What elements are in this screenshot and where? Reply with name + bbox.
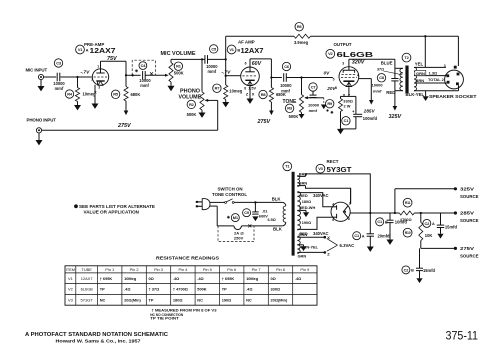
svg-text:285V: 285V xyxy=(363,109,376,114)
tube V2 6L6GB output beam tetrode xyxy=(333,62,359,91)
svg-text:12AX7: 12AX7 xyxy=(81,276,93,281)
svg-text:TOTAL 2: TOTAL 2 xyxy=(428,77,445,82)
wire R1 top to C5 xyxy=(171,58,205,60)
svg-text:† 695K: † 695K xyxy=(222,276,235,281)
potentiometer R2 500K phono volume xyxy=(187,92,205,117)
svg-text:.4Ω: .4Ω xyxy=(197,276,203,281)
svg-text:R7: R7 xyxy=(215,86,220,91)
resistor R7 10meg xyxy=(213,84,243,102)
svg-text:500K: 500K xyxy=(174,71,184,76)
svg-text:A: A xyxy=(86,47,89,52)
node V1B plate xyxy=(270,76,272,78)
svg-text:NC: NC xyxy=(246,298,252,303)
6L6 plate wire 320V xyxy=(349,59,395,66)
wire plug to switch xyxy=(210,201,225,203)
svg-text:mmf: mmf xyxy=(140,83,149,88)
svg-text:10K: 10K xyxy=(425,233,433,238)
svg-text:BRN: BRN xyxy=(299,171,308,176)
275V source arrow below R8 xyxy=(257,111,274,126)
AC line plug xyxy=(196,199,210,210)
wire node to C4 xyxy=(126,69,141,76)
svg-text:680K: 680K xyxy=(131,92,141,97)
wire C5 to grid node xyxy=(208,58,227,60)
svg-text:Pin 7: Pin 7 xyxy=(252,267,261,272)
325V source line xyxy=(395,187,479,213)
grid voltage label -.7V xyxy=(81,70,91,76)
resistor R5 680K plate load xyxy=(111,75,140,110)
T1 6.3V heater winding GRN xyxy=(297,232,330,259)
speaker impedance labels xyxy=(428,70,445,81)
svg-text:NC: NC xyxy=(197,298,203,303)
svg-text:20mfd: 20mfd xyxy=(378,233,391,238)
svg-text:2 W: 2 W xyxy=(344,103,351,108)
T2 primary coil xyxy=(400,68,403,90)
svg-text:GRN: GRN xyxy=(299,232,308,237)
svg-text:† 37Ω: † 37Ω xyxy=(149,287,160,292)
cathode ground V1A xyxy=(92,85,99,109)
V1B plate voltage 60V xyxy=(252,61,262,67)
svg-text:.4Ω: .4Ω xyxy=(295,276,301,281)
svg-text:3: 3 xyxy=(342,62,344,66)
svg-text:275V: 275V xyxy=(257,119,271,125)
resistor R4 10meg grid leak xyxy=(65,77,96,105)
svg-text:BLK-YEL: BLK-YEL xyxy=(406,92,425,97)
svg-text:R10: R10 xyxy=(405,231,411,235)
svg-text:PHONO INPUT: PHONO INPUT xyxy=(27,117,57,122)
svg-text:250V: 250V xyxy=(234,236,244,241)
tube V1A 12AX7 pre-amp triode xyxy=(91,64,109,89)
svg-text:B: B xyxy=(385,221,388,225)
svg-text:TUBE: TUBE xyxy=(81,267,92,272)
svg-text:mmf: mmf xyxy=(207,69,216,74)
svg-text:500K: 500K xyxy=(289,114,299,119)
filter cap C2A 15mfd xyxy=(423,213,458,239)
wire C4 to R1 wiper xyxy=(145,74,168,77)
ground below R3 xyxy=(299,114,305,119)
pre-amp title and V1 designator xyxy=(76,42,116,55)
output title and V2 designator xyxy=(326,42,373,59)
svg-text:TP: TP xyxy=(100,287,105,292)
node plate V1A xyxy=(125,74,127,76)
T1 HV center tap RED-WH to ground xyxy=(297,205,315,225)
resistor R8 680K xyxy=(259,78,286,111)
svg-text:TP: TP xyxy=(222,287,227,292)
svg-text:.4Ω: .4Ω xyxy=(173,276,179,281)
feedback wire to speaker xyxy=(311,35,459,67)
filter cap C2B 15mfd xyxy=(402,248,436,283)
capacitor C9 .01 600V line bypass xyxy=(243,202,269,221)
tone control title xyxy=(283,99,297,105)
svg-text:375-11: 375-11 xyxy=(446,331,479,343)
svg-text:285V: 285V xyxy=(460,211,475,216)
svg-text:10000: 10000 xyxy=(280,83,292,88)
V3 pin2 wire xyxy=(350,188,352,204)
svg-text:† 4700Ω: † 4700Ω xyxy=(173,287,188,292)
mic volume title xyxy=(161,51,196,57)
svg-text:C7: C7 xyxy=(311,84,316,89)
svg-text:MIC VOLUME: MIC VOLUME xyxy=(161,51,196,57)
wire fuse to T1 primary bottom BLK xyxy=(241,222,285,231)
V1B plate wire to C6 node xyxy=(250,59,271,78)
speaker socket xyxy=(429,64,477,99)
capacitor C6 10000mmf coupling xyxy=(271,62,292,93)
R2 wiper wire to phono input xyxy=(42,99,218,130)
svg-text:mmf: mmf xyxy=(373,88,382,93)
svg-text:-.7V: -.7V xyxy=(222,69,232,75)
T2 secondary green tap boxed label xyxy=(414,70,446,75)
ground below R2 xyxy=(199,113,206,118)
svg-text:A: A xyxy=(432,222,435,226)
svg-text:SOURCE: SOURCE xyxy=(460,218,479,223)
svg-text:340VAC: 340VAC xyxy=(313,231,329,236)
svg-text:mmf: mmf xyxy=(309,108,318,113)
svg-text:4: 4 xyxy=(357,73,359,77)
svg-text:BLK: BLK xyxy=(273,227,283,232)
capacitor C5 10000mmf xyxy=(205,45,218,74)
wire mic jack to C3 xyxy=(44,76,57,78)
svg-text:680K: 680K xyxy=(276,92,286,97)
svg-text:X: X xyxy=(94,90,97,95)
svg-text:4700Ω: 4700Ω xyxy=(400,217,412,222)
wire C6 to 6L6 grid xyxy=(286,76,333,78)
switch on tone control xyxy=(212,187,247,204)
svg-text:Pin 5: Pin 5 xyxy=(203,267,212,272)
phono input jack J2 xyxy=(27,117,57,133)
svg-text:6: 6 xyxy=(332,218,334,222)
resistor R9 330ohm 2W xyxy=(326,96,353,128)
T2 primary blue wire from plate xyxy=(381,59,403,68)
T2 primary winding resistance 37ohm xyxy=(377,68,402,75)
svg-text:RED: RED xyxy=(300,193,308,198)
svg-text:Pin 2: Pin 2 xyxy=(130,267,139,272)
svg-text:Pin 3: Pin 3 xyxy=(154,267,163,272)
screen wire to 285V arrow xyxy=(358,79,375,114)
svg-text:6: 6 xyxy=(245,62,247,66)
svg-text:5Y3GT: 5Y3GT xyxy=(80,298,93,303)
svg-text:15mfd: 15mfd xyxy=(445,224,458,229)
275V source arrow below R5 xyxy=(117,111,131,130)
resistance readings table xyxy=(65,256,317,306)
transformer T1 designator xyxy=(283,162,292,171)
svg-text:8: 8 xyxy=(348,217,350,221)
svg-text:0Ω: 0Ω xyxy=(271,276,276,281)
wire to phono volume top xyxy=(201,59,203,91)
potentiometer R1 500K mic volume xyxy=(169,59,184,85)
svg-text:3: 3 xyxy=(98,86,100,90)
tube V1B 12AX7 AF amp xyxy=(241,62,260,91)
svg-text:Pin 8: Pin 8 xyxy=(276,267,285,272)
svg-text:10Meg: 10Meg xyxy=(246,276,259,281)
ground at phono jack xyxy=(36,133,43,145)
svg-text:6L6GB: 6L6GB xyxy=(81,287,94,292)
svg-text:20Ω(Min): 20Ω(Min) xyxy=(271,298,288,303)
ground below R1 xyxy=(168,86,175,91)
svg-text:190Ω: 190Ω xyxy=(302,221,311,225)
wire to V1B grid xyxy=(222,69,241,75)
svg-text:SOURCE: SOURCE xyxy=(460,194,479,199)
svg-text:TONE CONTROL: TONE CONTROL xyxy=(212,192,247,197)
folder number 375-11 xyxy=(446,331,479,343)
tie point x after C4 xyxy=(150,72,153,75)
resistor R10 10K bleeder xyxy=(403,213,432,248)
potentiometer R3 500K tone xyxy=(285,78,303,120)
svg-text:8: 8 xyxy=(244,86,246,90)
svg-text:10000: 10000 xyxy=(372,82,384,87)
svg-text:V3: V3 xyxy=(68,298,73,303)
svg-text:340VAC: 340VAC xyxy=(313,193,329,198)
feedback wire from grid node xyxy=(226,35,294,37)
svg-text:GRN-YEL: GRN-YEL xyxy=(301,245,319,250)
svg-text:100mfd: 100mfd xyxy=(363,116,378,121)
alternate dashed ground for tone xyxy=(313,98,329,112)
svg-text:0Ω: 0Ω xyxy=(149,276,154,281)
svg-text:6L6GB: 6L6GB xyxy=(337,50,374,59)
filter cap C1B 10mfd xyxy=(376,213,408,245)
capacitor C3 10000mmf xyxy=(53,59,65,91)
svg-text:12AX7: 12AX7 xyxy=(241,46,264,55)
rectifier title and V3 designator xyxy=(316,159,352,174)
svg-text:1.3Ω: 1.3Ω xyxy=(429,70,438,75)
T2 red wire to 325V arrow xyxy=(386,90,403,120)
ground below R7 xyxy=(222,102,229,107)
svg-text:mmf: mmf xyxy=(55,86,64,91)
capacitor C1C 100mfd cathode bypass xyxy=(341,96,378,128)
svg-text:SPEAKER SOCKET: SPEAKER SOCKET xyxy=(429,94,477,99)
svg-text:275V: 275V xyxy=(117,123,131,129)
svg-text:0V: 0V xyxy=(324,70,331,76)
transformer T2 designator xyxy=(402,53,411,62)
svg-text:2: 2 xyxy=(91,78,93,82)
T2 secondary black-yellow wire xyxy=(406,91,459,101)
T1 HV bottom RED 340VAC xyxy=(297,217,331,236)
svg-text:GRN: GRN xyxy=(298,254,307,259)
svg-text:37Ω: 37Ω xyxy=(377,68,384,72)
svg-text:RESISTANCE READINGS: RESISTANCE READINGS xyxy=(156,256,220,262)
capacitor C7 10000mmf on tone wiper xyxy=(304,83,320,113)
svg-text:Pin 4: Pin 4 xyxy=(178,267,188,272)
svg-text:3.9meg: 3.9meg xyxy=(294,40,309,45)
svg-text:Howard W. Sams & Co., Inc. 195: Howard W. Sams & Co., Inc. 1957 xyxy=(56,339,142,344)
svg-text:RED-WH: RED-WH xyxy=(299,205,315,210)
alternate part dashed box around C4 xyxy=(132,60,155,75)
svg-text:VALUE OR APPLICATION: VALUE OR APPLICATION xyxy=(84,210,140,215)
svg-text:R11: R11 xyxy=(405,201,411,205)
T1 primary coil xyxy=(268,206,286,222)
svg-text:BRN: BRN xyxy=(416,78,425,83)
svg-text:† 695K: † 695K xyxy=(100,276,113,281)
phono volume title xyxy=(179,89,202,101)
svg-text:YEL: YEL xyxy=(415,61,424,66)
svg-text:SEE PARTS LIST FOR ALTERNATE: SEE PARTS LIST FOR ALTERNATE xyxy=(79,204,155,209)
svg-text:5: 5 xyxy=(333,78,335,82)
capacitor C8 10000mmf across primary xyxy=(372,68,399,93)
svg-text:500K: 500K xyxy=(187,112,197,117)
svg-text:325V: 325V xyxy=(389,114,402,120)
T1 core xyxy=(292,172,295,256)
svg-text:75V: 75V xyxy=(107,56,117,62)
svg-text:6.5Ω: 6.5Ω xyxy=(268,218,276,222)
svg-text:B: B xyxy=(411,269,414,273)
B+ wire from V3 pin 8 xyxy=(350,212,399,214)
capacitor C4 10000mmf xyxy=(139,62,151,88)
mic input jack J1 xyxy=(26,68,48,80)
T2 secondary yellow wire xyxy=(414,61,446,67)
T2 secondary coil xyxy=(414,67,417,90)
svg-text:A PHOTOFACT STANDARD NOTATION: A PHOTOFACT STANDARD NOTATION SCHEMATIC xyxy=(25,332,169,338)
AF amp title and V1B designator xyxy=(227,40,263,55)
T1 rectifier heater winding BRN xyxy=(297,171,370,213)
wire R11 to 285V source xyxy=(414,211,478,223)
table footnotes xyxy=(150,308,217,321)
ground below cathode network xyxy=(337,129,344,134)
6.3VAC measurement lines xyxy=(327,239,354,252)
svg-text:MIC INPUT: MIC INPUT xyxy=(26,68,48,73)
svg-text:15mfd: 15mfd xyxy=(423,268,436,273)
svg-text:60V: 60V xyxy=(252,61,262,67)
wire plug bottom to fuse xyxy=(209,206,234,226)
svg-text:SWITCH ON: SWITCH ON xyxy=(217,187,242,192)
svg-text:NC: NC xyxy=(100,298,106,303)
svg-text:330Ω: 330Ω xyxy=(271,287,281,292)
svg-text:Pin 9: Pin 9 xyxy=(300,267,309,272)
svg-text:20Ω(Min): 20Ω(Min) xyxy=(124,298,141,303)
T2 core xyxy=(405,66,408,94)
svg-text:BLK: BLK xyxy=(272,196,282,201)
svg-text:.4Ω: .4Ω xyxy=(124,287,130,292)
svg-text:TP: TP xyxy=(149,298,154,303)
svg-text:500K: 500K xyxy=(197,287,206,292)
ground at mic jack xyxy=(38,80,45,92)
svg-text:190Ω: 190Ω xyxy=(222,298,232,303)
svg-text:1: 1 xyxy=(97,64,99,68)
svg-text:6.3VAC: 6.3VAC xyxy=(340,243,355,248)
footer photofact line xyxy=(25,332,169,344)
tube V3 5Y3GT rectifier xyxy=(331,201,351,222)
svg-text:325V: 325V xyxy=(460,187,475,192)
resistor R11 4700ohm filter xyxy=(399,198,414,222)
svg-text:V2: V2 xyxy=(68,287,73,292)
V1A plate wire to R5 node xyxy=(101,56,127,75)
svg-text:V1: V1 xyxy=(68,276,73,281)
wire to 275V source xyxy=(421,246,479,258)
cathode ground V1B xyxy=(247,86,254,104)
svg-text:-.7V: -.7V xyxy=(81,70,91,76)
svg-text:3: 3 xyxy=(444,64,446,68)
6L6 grid voltage 0V xyxy=(324,70,331,76)
parts list note xyxy=(74,204,155,214)
svg-text:20V: 20V xyxy=(326,86,336,91)
svg-text:X: X xyxy=(252,92,255,97)
6L6 cathode network R9 C1 xyxy=(341,87,356,96)
svg-text:ITEM: ITEM xyxy=(66,267,75,272)
svg-text:Pin 1: Pin 1 xyxy=(105,267,114,272)
svg-text:180Ω: 180Ω xyxy=(302,200,311,204)
wire switch to T1 primary top BLK xyxy=(234,196,286,206)
svg-text:4: 4 xyxy=(332,203,334,207)
svg-text:BRN: BRN xyxy=(299,181,308,186)
svg-text:320V: 320V xyxy=(352,59,365,65)
wire C3 to V1A grid xyxy=(60,76,91,78)
svg-text:RECT: RECT xyxy=(327,159,339,164)
svg-text:10Meg: 10Meg xyxy=(124,276,137,281)
svg-text:275V: 275V xyxy=(460,246,475,251)
svg-text:VOLUME: VOLUME xyxy=(179,94,202,100)
filter cap C1A 20mfd xyxy=(353,213,390,252)
resistor R6 3.9meg feedback xyxy=(294,23,311,45)
svg-text:A: A xyxy=(362,234,365,238)
svg-text:Pin 6: Pin 6 xyxy=(227,267,236,272)
svg-text:SOURCE: SOURCE xyxy=(460,253,479,258)
V1B cathode labels xyxy=(246,86,257,96)
svg-text:1.5V: 1.5V xyxy=(248,86,256,90)
interlock M1 2A 250V xyxy=(218,214,254,242)
svg-text:GRN: GRN xyxy=(416,71,425,76)
svg-text:12AX7: 12AX7 xyxy=(90,46,116,55)
svg-text:10meg: 10meg xyxy=(229,89,242,94)
svg-text:5Y3GT: 5Y3GT xyxy=(327,165,353,174)
6L6 cathode voltage 20V xyxy=(326,86,351,97)
svg-text:TP TIE POINT: TP TIE POINT xyxy=(150,316,179,321)
svg-text:RED: RED xyxy=(386,90,395,95)
svg-text:.4Ω: .4Ω xyxy=(246,287,252,292)
grid node vertical wire xyxy=(225,36,227,85)
svg-text:AF AMP: AF AMP xyxy=(238,40,255,45)
ground below R4 xyxy=(74,105,81,110)
svg-text:180Ω: 180Ω xyxy=(173,298,183,303)
svg-text:BLUE: BLUE xyxy=(381,60,393,65)
T2 secondary brown wire xyxy=(414,78,447,83)
T1 high voltage winding RED xyxy=(297,192,331,230)
svg-text:OUTPUT: OUTPUT xyxy=(334,42,352,47)
